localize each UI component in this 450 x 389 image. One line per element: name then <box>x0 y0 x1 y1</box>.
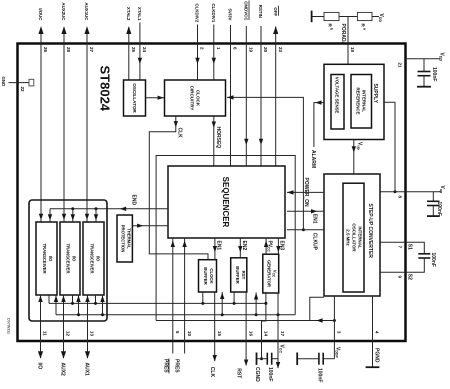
pin AUX2 12 (bottom, bidirectional) <box>60 295 71 376</box>
pin VUP 8 (right) <box>380 186 445 199</box>
wire ALARM (from supply, to label stub) <box>310 100 324 168</box>
signal EN2 (sequencer to rst buffer) <box>238 238 247 258</box>
svg-text:5V/3V: 5V/3V <box>228 9 233 21</box>
wire BusB to RST buffer area <box>254 293 258 315</box>
supply block <box>324 64 384 139</box>
svg-text:CLK: CLK <box>176 128 182 139</box>
svg-text:OSCILLATOR: OSCILLATOR <box>351 223 356 252</box>
supply rail (around sequencer: left branch to VDDP rail, right branch to BusB) <box>156 156 295 321</box>
pin VCC 17 (bottom, output) <box>276 293 285 369</box>
svg-text:21: 21 <box>397 63 402 69</box>
pin 5V/3V 6 (top, input) <box>228 9 238 166</box>
svg-text:TRANSCEIVER: TRANSCEIVER <box>42 243 47 273</box>
wire BusB to clock buffer <box>220 292 224 315</box>
svg-text:XTAL2: XTAL2 <box>126 7 131 21</box>
internal reference block <box>351 75 372 129</box>
svg-text:13: 13 <box>90 331 95 337</box>
svg-text:I/O: I/O <box>96 256 101 262</box>
svg-text:I/O: I/O <box>48 256 53 262</box>
ground (C2) <box>427 215 440 217</box>
svg-text:5: 5 <box>175 331 180 334</box>
ground (PGND bar) <box>366 366 380 368</box>
wire vcc generator to BusA <box>265 292 267 303</box>
pin XTAL1 24 (top, input) <box>137 7 147 80</box>
svg-text:CLOCK: CLOCK <box>209 268 214 284</box>
pin PRES(bar) 5 (bottom, to sequencer) <box>162 238 180 374</box>
I/O transceiver 1 block <box>36 222 57 295</box>
svg-text:GND: GND <box>1 77 6 87</box>
wire Vup (supply to step-up) <box>352 140 363 175</box>
svg-text:PORADJ: PORADJ <box>340 24 346 45</box>
pin CMDVCC (bar) 19 (top, input) <box>244 1 254 167</box>
svg-text:XTAL1: XTAL1 <box>137 7 142 21</box>
wire POWER_ON (step-up to sequencer) <box>287 178 324 208</box>
wire END branch into transceiver 1 <box>48 209 52 222</box>
svg-text:EN3: EN3 <box>279 241 285 251</box>
svg-text:17: 17 <box>280 331 285 337</box>
svg-text:26: 26 <box>43 47 48 53</box>
svg-text:19: 19 <box>249 47 254 53</box>
resistor Rb (top right, to ground bar) <box>312 11 339 31</box>
svg-text:INTERNAL: INTERNAL <box>357 226 362 249</box>
pin I/O 11 (bottom, bidirectional) <box>37 295 48 369</box>
wire HORSEQ (clock circuitry to sequencer) <box>212 116 221 166</box>
capacitor C3 100nF (S1-S2) <box>418 253 436 267</box>
resistor Ra (top right, to VDD) <box>339 12 379 31</box>
sequencer block <box>168 166 285 238</box>
svg-text:REFERENCE: REFERENCE <box>356 87 361 114</box>
svg-text:CLK: CLK <box>209 367 215 378</box>
svg-text:CLKDIV1: CLKDIV1 <box>211 4 216 23</box>
svg-text:SEQUENCER: SEQUENCER <box>221 177 230 228</box>
svg-text:AUX1: AUX1 <box>84 363 90 377</box>
svg-text:RST: RST <box>241 271 246 280</box>
wire clock buffer to BusA <box>202 292 204 303</box>
pin CGND 14 (bottom, to ground) <box>254 302 269 382</box>
node junction on Vup line <box>394 190 397 193</box>
bus VUP rail (BusB, supply rail to transceivers and buffers) <box>54 295 295 316</box>
svg-text:27: 27 <box>89 47 94 53</box>
svg-text:100nF: 100nF <box>431 67 437 81</box>
svg-text:PRES: PRES <box>173 359 179 373</box>
pin GND 22 (left) with pad symbol <box>1 77 34 93</box>
svg-text:OSCILLATOR: OSCILLATOR <box>132 83 137 113</box>
svg-text:AUX1UC: AUX1UC <box>84 2 89 21</box>
svg-text:28: 28 <box>66 47 71 53</box>
svg-text:PGND: PGND <box>374 348 380 363</box>
pin CLKDIV1 1 (top, input) <box>211 4 221 80</box>
svg-text:3: 3 <box>337 331 342 334</box>
svg-text:ST8024: ST8024 <box>98 66 113 112</box>
svg-text:CLKUP: CLKUP <box>311 233 317 251</box>
svg-text:100nF: 100nF <box>267 367 273 381</box>
svg-text:D97IN332: D97IN332 <box>7 318 11 334</box>
svg-text:CLKDIV2: CLKDIV2 <box>195 4 200 23</box>
pin AUX1UC 27 (top, bidirectional) <box>84 2 94 222</box>
svg-text:S2: S2 <box>406 274 412 280</box>
signal PVCC (vcc generator to sequencer) <box>264 238 273 254</box>
svg-text:THERMAL: THERMAL <box>127 228 132 249</box>
svg-text:7: 7 <box>397 246 402 249</box>
pin S2 9 (right) with loop from C3 <box>380 258 424 280</box>
svg-text:15: 15 <box>217 331 222 337</box>
pin XTAL2 25 (top, output) <box>126 7 136 80</box>
rst buffer block <box>231 258 247 292</box>
ground (CGND bar) <box>256 353 258 365</box>
pin AUX1 13 (bottom, bidirectional) <box>84 295 95 376</box>
svg-text:ALARM: ALARM <box>310 150 316 168</box>
svg-text:I/O: I/O <box>37 363 43 370</box>
svg-text:GENERATOR: GENERATOR <box>267 260 272 288</box>
voltage sense block <box>331 75 344 130</box>
pin CLK 15 (bottom, output) <box>209 292 222 377</box>
bus GND rail (BusA, transceivers and buffers to CGND) <box>49 295 266 305</box>
svg-text:AUX2UC: AUX2UC <box>61 2 66 21</box>
wire thermal protection to sequencer <box>132 224 168 228</box>
signal EN3 (sequencer to vcc generator) <box>276 238 285 254</box>
pin CLKDIV2 2 (top, input) <box>195 4 205 80</box>
svg-text:CMDVCC: CMDVCC <box>244 1 249 21</box>
svg-text:PROTECTION: PROTECTION <box>121 225 126 252</box>
pin VDD 21 (right top) <box>397 53 444 69</box>
svg-text:18: 18 <box>350 47 355 53</box>
svg-text:STEP-UP CONVERTER: STEP-UP CONVERTER <box>367 204 373 259</box>
pin PGND 4 (bottom) with ground <box>373 296 380 367</box>
svg-text:EN2: EN2 <box>241 241 247 251</box>
svg-text:16: 16 <box>248 331 253 337</box>
capacitor C1 100nF (VDD decoupling) <box>418 59 438 87</box>
svg-text:HORSEQ: HORSEQ <box>215 127 221 149</box>
wire EN1 (sequencer to step-up) <box>287 209 324 224</box>
svg-text:8: 8 <box>397 196 402 199</box>
svg-text:OFF: OFF <box>273 7 278 16</box>
svg-text:VOLTAGE SENSE: VOLTAGE SENSE <box>335 77 340 114</box>
wire CLK (clock circuitry to clock buffer) <box>149 116 208 260</box>
svg-text:100nF: 100nF <box>430 253 436 267</box>
svg-text:AUX2: AUX2 <box>60 363 66 377</box>
ground (C1) <box>417 86 431 88</box>
wire END branch into transceiver 2 <box>71 209 75 222</box>
I/O transceiver 3 block <box>83 222 104 295</box>
wire supply to Vup node <box>384 102 395 192</box>
svg-text:RST: RST <box>236 368 242 378</box>
svg-text:S1: S1 <box>406 244 412 250</box>
svg-text:2.5 MHz: 2.5 MHz <box>345 229 350 246</box>
svg-text:10: 10 <box>187 331 192 337</box>
svg-text:SUPPLY: SUPPLY <box>372 84 378 104</box>
svg-text:BUFFER: BUFFER <box>203 267 208 285</box>
pin OFF (bar) 23 (top, output) <box>273 6 283 166</box>
wire rst buffer to BusA <box>233 292 235 303</box>
svg-text:6: 6 <box>233 47 238 50</box>
svg-text:RSTIN: RSTIN <box>258 5 263 18</box>
svg-text:9: 9 <box>397 276 402 279</box>
pin RSTIN 20 (top, input) <box>258 5 268 166</box>
wire END (sequencer to transceivers) <box>50 195 168 212</box>
svg-text:EN1: EN1 <box>311 214 317 224</box>
svg-text:TRANSCEIVER: TRANSCEIVER <box>66 243 71 273</box>
signal EN1 (sequencer to clock buffer) <box>213 238 222 260</box>
svg-text:12: 12 <box>66 331 71 337</box>
I/O transceiver 2 block <box>60 222 80 295</box>
clock circuitry block <box>165 80 226 116</box>
svg-text:24: 24 <box>142 47 147 53</box>
svg-text:INTERNAL: INTERNAL <box>362 90 367 113</box>
wire END branch into transceiver 3 <box>94 209 98 222</box>
pin AUX2UC 28 (top, bidirectional) <box>61 2 71 222</box>
svg-text:EN1: EN1 <box>215 241 221 251</box>
ground (C5 bar) <box>296 353 298 366</box>
svg-text:1: 1 <box>216 47 221 50</box>
capacitor C5 100nF (VDDP) <box>297 353 334 383</box>
wire CLKUP (sequencer to step-up, branch to clock circuitry) <box>287 228 324 250</box>
ground (Rb top bar) <box>311 11 313 23</box>
svg-text:2: 2 <box>200 47 205 50</box>
pin RST 16 (bottom, output) <box>236 292 254 378</box>
svg-text:25: 25 <box>131 47 136 53</box>
VDDP rail (to step-up and VDDP pin) <box>156 297 336 322</box>
svg-text:100nF: 100nF <box>436 202 442 216</box>
pin S1 7 (right) with loop to C3 <box>380 242 424 254</box>
svg-text:TRANSCEIVER: TRANSCEIVER <box>90 243 95 273</box>
svg-text:END: END <box>130 195 136 206</box>
svg-text:22: 22 <box>20 87 25 93</box>
svg-text:CGND: CGND <box>254 367 260 382</box>
svg-text:CLOCK: CLOCK <box>195 90 200 107</box>
svg-text:4: 4 <box>375 331 380 334</box>
svg-text:20: 20 <box>263 47 268 53</box>
pin VDDP 3 (bottom) with cap C5 <box>334 296 341 359</box>
svg-text:14: 14 <box>264 331 269 337</box>
svg-text:BUFFER: BUFFER <box>235 266 240 284</box>
svg-text:I/OUC: I/OUC <box>38 8 43 21</box>
clock buffer block <box>199 260 217 292</box>
svg-text:100nF: 100nF <box>316 368 322 382</box>
svg-text:11: 11 <box>43 331 48 336</box>
chip border U1 ST8024 <box>18 44 406 342</box>
capacitor C2 100nF (VUP decoupling) <box>427 192 442 216</box>
transceiver group box <box>29 200 107 321</box>
pin PRES 10 (bottom, to sequencer) <box>173 238 192 373</box>
svg-text:I/O: I/O <box>72 256 77 262</box>
step-up converter block <box>324 174 380 296</box>
pin PORADJ 18 with wire into supply box <box>340 17 355 65</box>
capacitor C4 100nF (VCC-CGND) <box>262 353 279 382</box>
svg-text:PRES: PRES <box>162 359 168 373</box>
svg-text:23: 23 <box>278 47 283 53</box>
svg-text:CIRCUITRY: CIRCUITRY <box>189 86 194 111</box>
wire oscillator to clock circuitry <box>146 96 165 100</box>
pin I/OUC 26 (top, bidirectional) <box>38 8 48 222</box>
internal oscillator 2.5 MHz block <box>343 183 364 292</box>
thermal protection block <box>117 215 132 262</box>
vcc generator block <box>263 254 279 293</box>
oscillator block <box>124 80 146 116</box>
wire clock feedback (CLKUP branch up to clock circuitry) <box>227 95 303 230</box>
